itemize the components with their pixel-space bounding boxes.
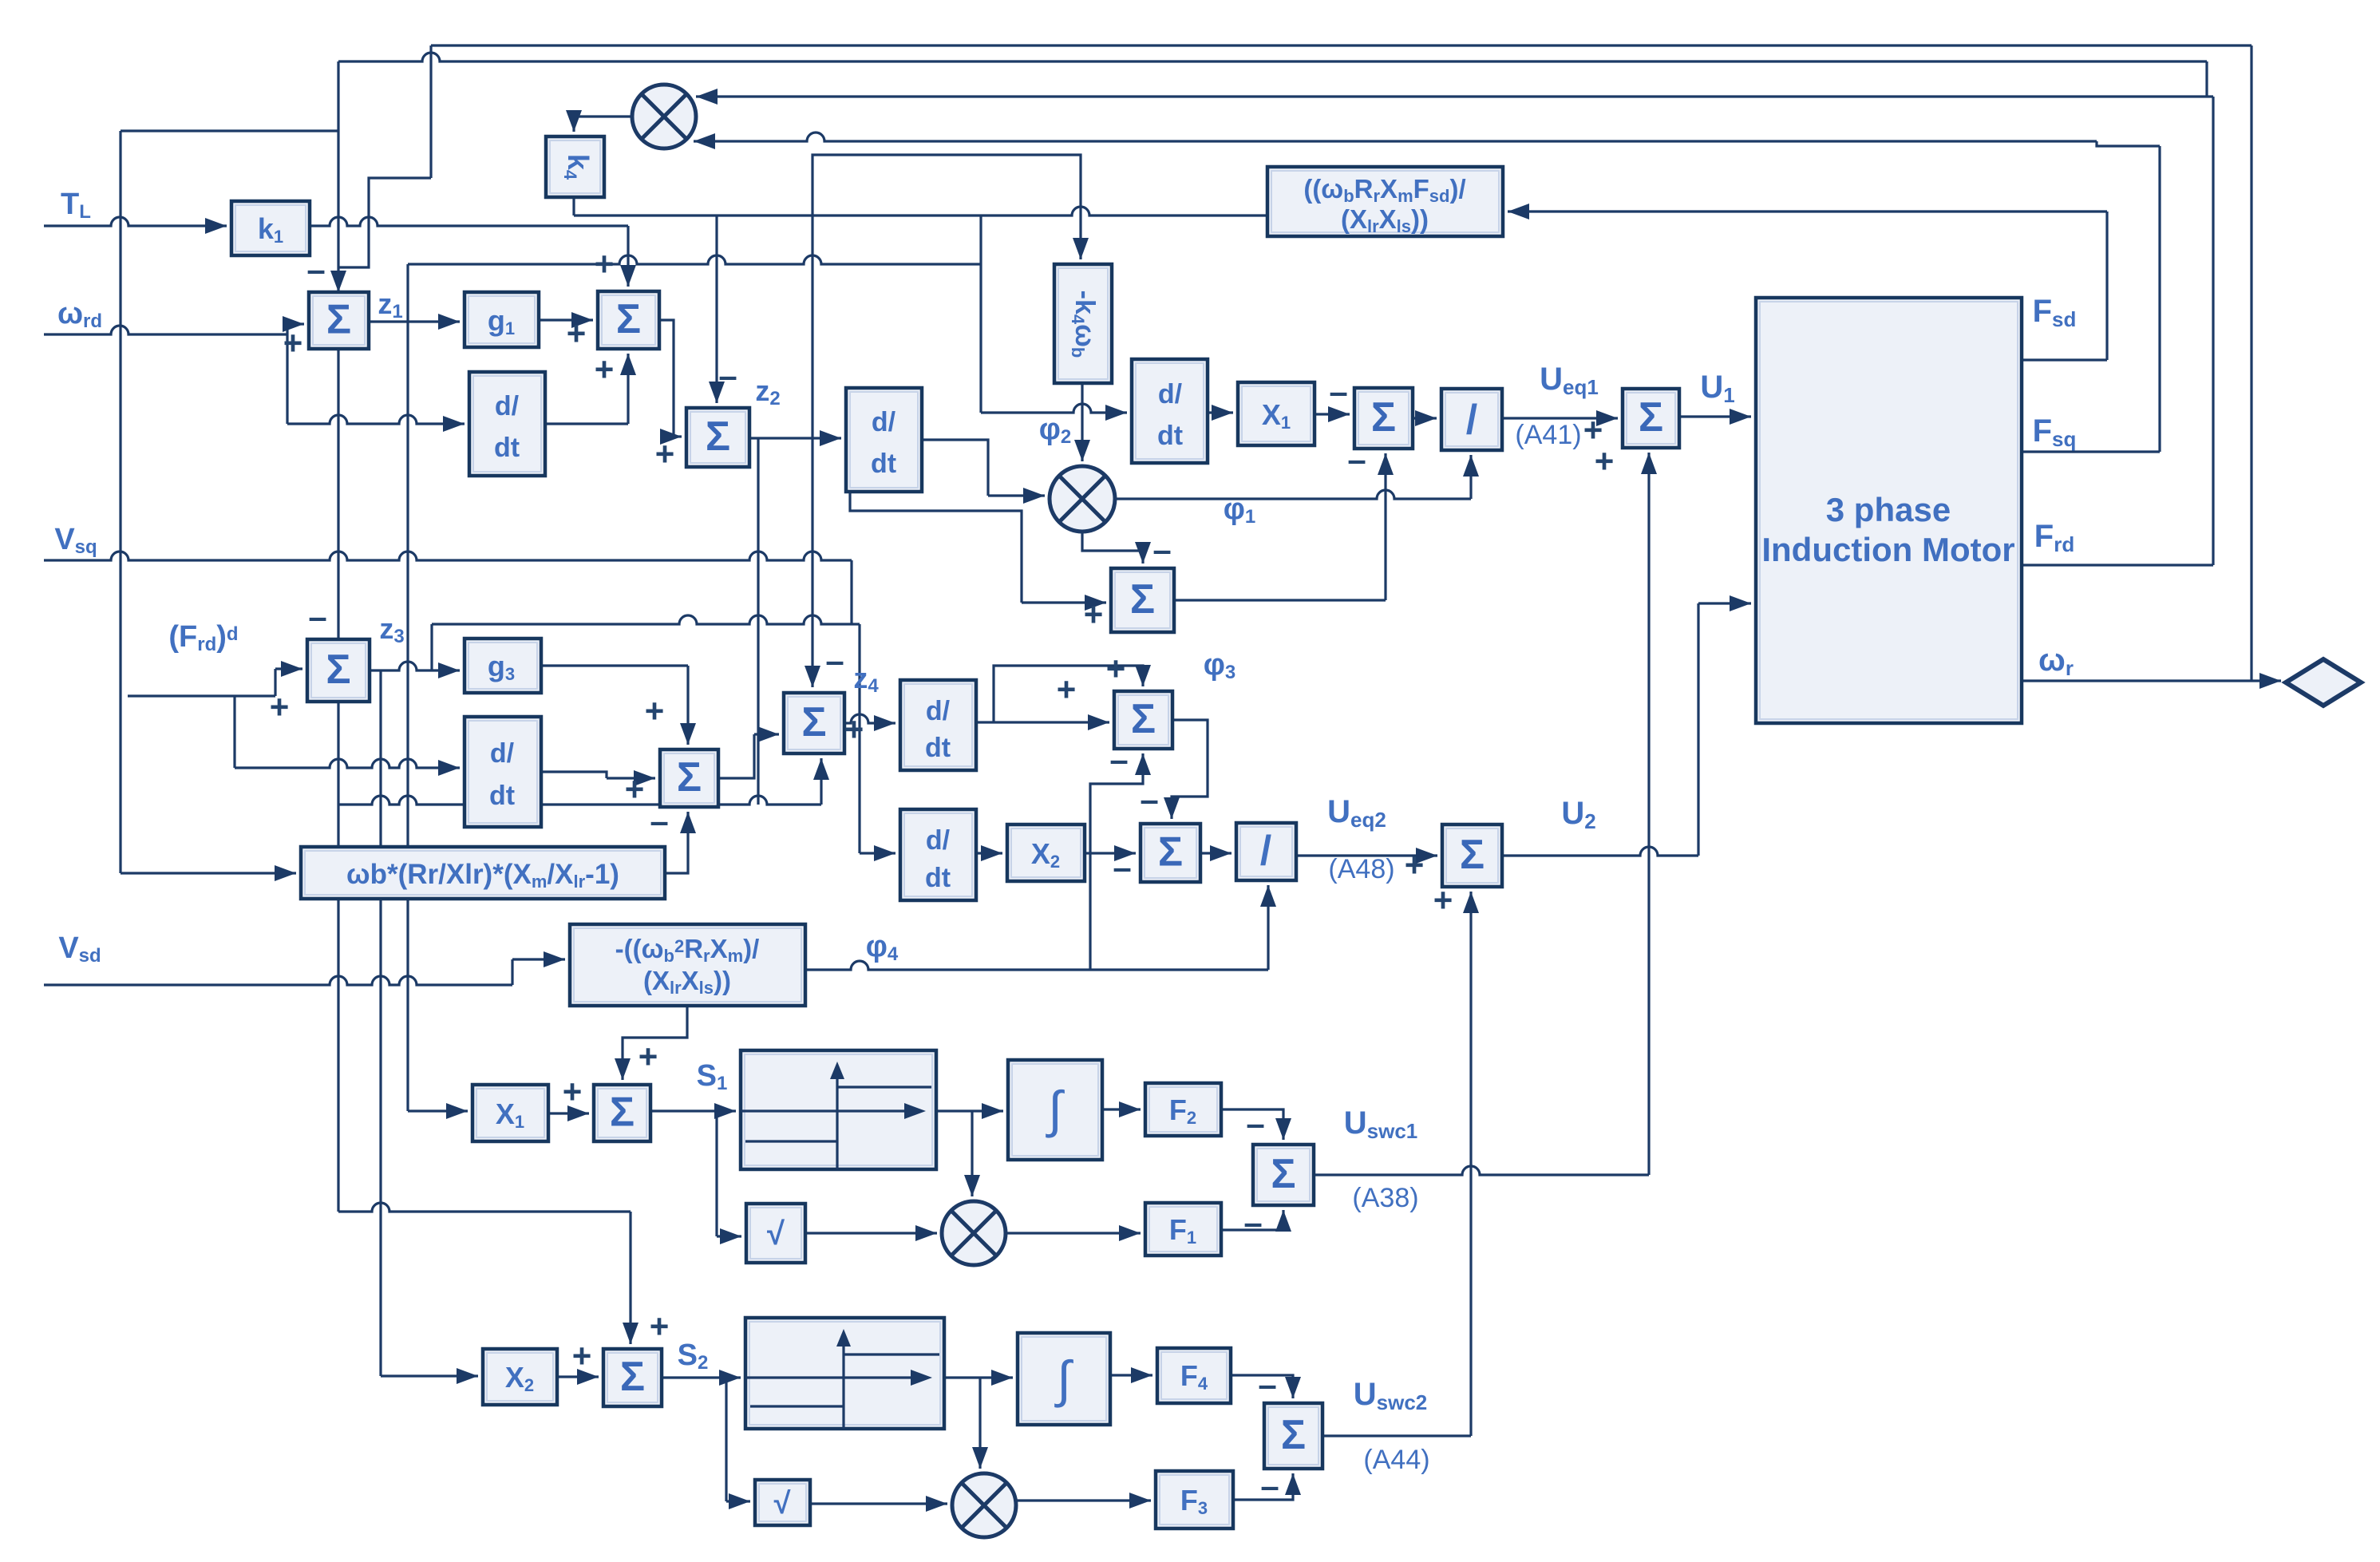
wire g1 output to sum S2 <box>539 318 593 321</box>
wire z2 branch down x=950 <box>757 438 759 805</box>
wire -((wb2RrXm)) block bottom to sum S13 top <box>623 1006 687 1080</box>
wire X2 lower output to sum S15 <box>557 1375 599 1378</box>
wire X1 lower output to sum S13 <box>548 1112 589 1114</box>
gain block -((wb2 Rr Xm)/(Xlr Xls)) <box>570 924 805 1006</box>
sqrt block 1 <box>746 1204 805 1263</box>
gain k4 <box>546 136 604 197</box>
svg-text:–: – <box>1260 1467 1279 1505</box>
wire omega-r feedback rail top (y=57) <box>431 44 2252 46</box>
sum S2 <box>598 291 659 349</box>
gain -k4wb <box>1054 264 1112 383</box>
svg-text:–: – <box>1152 531 1171 568</box>
wire relay2 output to integrator2 <box>944 1376 1013 1378</box>
wire ddt1 output to sum S2 bottom <box>545 422 628 425</box>
gain X1 lower <box>472 1085 548 1141</box>
svg-text:+: + <box>650 1307 670 1345</box>
gain X2 lower <box>483 1349 557 1405</box>
svg-text:+: + <box>844 710 864 748</box>
wire -k4wb output (phi2) down to multiplier M2 <box>1081 383 1083 461</box>
sum S12 (U2) <box>1442 824 1502 887</box>
svg-text:Induction Motor: Induction Motor <box>1761 531 2014 568</box>
wire S2 branch down to sqrt2 <box>725 1378 727 1501</box>
svg-text:Σ: Σ <box>1281 1412 1306 1458</box>
svg-text:–: – <box>1113 848 1131 886</box>
wire S1 branch down to sqrt block <box>715 1111 718 1236</box>
svg-text:Σ: Σ <box>1639 394 1663 441</box>
svg-text:–: – <box>308 598 326 635</box>
svg-text:∫: ∫ <box>1045 1081 1065 1138</box>
wire g3 output to sum S8 top <box>541 664 688 666</box>
svg-text:Σ: Σ <box>677 754 702 801</box>
wire phi1 output to sum S4 bottom minus <box>1174 599 1386 601</box>
wire ddt4 output to gain X1 <box>1208 411 1233 413</box>
sum S4 <box>1354 388 1413 449</box>
gain F4 <box>1157 1348 1231 1403</box>
derivative ddt4 <box>1132 359 1208 463</box>
wire feedback line2 (y=77) to sum S1 minus <box>338 53 2207 61</box>
gain g1 <box>465 292 539 347</box>
wire sqrt1 to multiplier M3 <box>805 1232 937 1234</box>
wire phi4 line from -((wb2RrXm)) block to divider D2 bottom <box>805 961 1268 970</box>
divider D2 <box>1236 823 1296 880</box>
svg-text:–: – <box>1246 1105 1264 1142</box>
wire motor output Frd stub <box>2022 564 2213 566</box>
wire gain k4 output rail (y=270) <box>572 197 575 216</box>
wire multiplier M1 output to gain k4 <box>574 117 632 132</box>
gain block wb*(Rr/Xlr)*(Xm/Xlr-1) <box>301 847 665 899</box>
svg-text:+: + <box>563 1073 583 1110</box>
svg-text:+: + <box>1405 846 1425 884</box>
svg-text:Σ: Σ <box>706 413 730 460</box>
svg-text:+: + <box>572 1337 592 1374</box>
svg-text:Σ: Σ <box>1371 394 1396 441</box>
svg-text:(A48): (A48) <box>1328 854 1394 884</box>
wire M2 bottom output to sum S6 top minus <box>1082 532 1143 564</box>
wire sqrt2 to multiplier M4 <box>810 1502 947 1505</box>
svg-text:dt: dt <box>925 733 951 763</box>
wire k4 rail drop to sum S3 top minus <box>715 216 718 403</box>
wire input (Frd)d (y=872) into sum S7 <box>128 694 275 697</box>
wire wb block output up into sum S8 bottom minus <box>665 812 688 873</box>
svg-text:+: + <box>270 688 290 726</box>
wire z3 output to gain g3 <box>370 662 460 670</box>
wire segment y=164 joining line2 vertical <box>121 129 338 132</box>
derivative ddt1 <box>469 372 545 476</box>
svg-text:–: – <box>718 357 737 394</box>
output diamond (omega-r scope) <box>2286 659 2361 706</box>
gain g3 <box>465 639 541 693</box>
wire ddt4 feed drop x=1229 <box>979 216 982 413</box>
integrator 2 <box>1018 1333 1110 1425</box>
sum S14 (Uswc1) <box>1253 1145 1314 1205</box>
svg-text:Σ: Σ <box>326 647 350 693</box>
svg-text:+: + <box>283 324 303 362</box>
svg-text:–: – <box>306 251 325 288</box>
wire relay1 output branch down to multiplier M3 top <box>971 1111 973 1196</box>
svg-text:+: + <box>1084 595 1104 633</box>
wire ddt3 output to multiplier M2 left <box>922 440 988 496</box>
wire jog from line1 into x=462 drop <box>338 178 431 267</box>
svg-text:–: – <box>650 802 668 840</box>
gain F2 <box>1145 1083 1221 1136</box>
svg-text:+: + <box>655 435 675 473</box>
gain F1 <box>1145 1203 1221 1256</box>
derivative ddt5 <box>465 717 541 827</box>
wire gain k1 output to sum S2 top <box>310 217 628 226</box>
wire sum S4 output to divider D1 <box>1413 417 1437 419</box>
svg-text:Σ: Σ <box>1158 829 1183 876</box>
wire F2 to sum S14 top minus <box>1221 1109 1283 1140</box>
wire Ueq2 divider D2 to sum S12 <box>1296 854 1437 856</box>
relay block 1 (sign function) <box>741 1050 936 1169</box>
wire (Frd)d branch to derivative ddt5 <box>233 696 235 768</box>
wire Uswc2 output line to riser x=1843 <box>1322 1434 1471 1437</box>
sum S15 (S2) <box>603 1349 662 1406</box>
svg-text:–: – <box>1258 1366 1276 1403</box>
svg-text:(XlrXls)): (XlrXls)) <box>643 966 731 998</box>
wire Uswc1 output line to riser x=2066 <box>1314 1166 1649 1175</box>
sum S3 (z2) <box>686 408 749 467</box>
sum S8 <box>660 749 718 807</box>
wire input TL (y=283) <box>44 217 227 226</box>
wire phi4 branch up into sum S10 bottom minus <box>1090 753 1143 970</box>
wire y=1008 line into sum S9 bottom <box>338 796 821 805</box>
svg-text:Σ: Σ <box>801 699 826 745</box>
svg-text:d/: d/ <box>1158 379 1183 409</box>
svg-text:d/: d/ <box>926 825 951 856</box>
wire U2 sum S12 right and up to motor lower input <box>1502 847 1698 856</box>
wire motor output omega-r to diamond <box>2022 679 2281 682</box>
wire Uswc1 riser into sum S5 bottom <box>1647 453 1650 1175</box>
wire ddt3 bottom stub to sum S6 left <box>850 492 1022 603</box>
svg-text:–: – <box>1109 741 1128 778</box>
sum S9 (z4) <box>784 693 844 753</box>
sum S10 (phi3) <box>1114 691 1172 749</box>
svg-text:+: + <box>1057 670 1077 708</box>
wire motor output Fsq stub <box>2022 450 2160 453</box>
wire Fsq feedback to multiplier M1 lower input (y=177) <box>694 132 2097 141</box>
wire sum S2 output to sum S3 left <box>659 320 674 437</box>
derivative ddt6 <box>900 680 976 770</box>
wire S1 line sum S13 to relay block <box>650 1109 736 1112</box>
svg-text:Σ: Σ <box>326 297 351 343</box>
svg-text:–: – <box>1329 373 1347 410</box>
wire sum S1 bottom drop to S15 feed line (x=424) <box>337 349 339 1212</box>
sum S7 (z3) <box>307 639 370 702</box>
svg-text:Σ: Σ <box>610 1089 635 1136</box>
sqrt block 2 <box>755 1480 810 1525</box>
multiplier M2 <box>1050 466 1115 532</box>
gain X2 <box>1007 824 1085 881</box>
wire F4 to sum S16 top minus <box>1231 1375 1293 1398</box>
svg-text:(A44): (A44) <box>1363 1445 1429 1475</box>
svg-text:+: + <box>567 314 587 352</box>
svg-text:Σ: Σ <box>1131 696 1156 742</box>
svg-text:dt: dt <box>494 433 520 463</box>
wire M3 output to F1 <box>1006 1232 1141 1234</box>
svg-text:d/: d/ <box>490 738 515 769</box>
svg-text:√: √ <box>767 1216 785 1252</box>
wire Frd feedback to multiplier M1 upper input (y=121) <box>696 95 2213 97</box>
svg-text:d/: d/ <box>926 696 951 726</box>
derivative ddt7 <box>900 809 976 900</box>
wire Uswc2 riser into sum S12 bottom <box>1469 892 1472 1436</box>
wire omega-rd branch to derivative ddt1 <box>286 334 288 424</box>
svg-text:/: / <box>1260 828 1271 874</box>
wire relay2 branch down to multiplier M4 top <box>978 1378 981 1469</box>
sum S13 (S1) <box>594 1085 650 1141</box>
svg-text:dt: dt <box>1157 421 1183 451</box>
svg-text:–: – <box>1347 441 1366 478</box>
wire M2 output right to divider D1 bottom <box>1115 490 1471 499</box>
svg-text:Σ: Σ <box>1130 576 1155 623</box>
derivative ddt3 <box>846 388 922 492</box>
wire X1 output to sum S4 <box>1315 413 1350 415</box>
svg-text:+: + <box>595 245 615 283</box>
wire ddt7 output to gain X2 <box>976 852 1002 854</box>
svg-text:d/: d/ <box>495 391 520 421</box>
wire F1 to sum S14 bottom minus <box>1221 1210 1283 1230</box>
wire Fsd feedback into (wb Rr Xm Fsd) block input (y=265) <box>1508 210 2107 212</box>
wire node 1018 drop to sum S9 top minus <box>811 216 813 687</box>
wire z2 output to derivative ddt3 <box>749 437 841 439</box>
wire M4 output to F3 <box>1016 1499 1151 1501</box>
svg-text:(A41): (A41) <box>1515 420 1581 450</box>
wire into X1 lower <box>408 1109 468 1112</box>
wire z1 output to gain g1 <box>369 320 460 322</box>
wire z3 down-branch x=477 to gain X2 lower <box>379 670 382 1376</box>
wire U1 sum S5 to motor <box>1679 415 1751 417</box>
svg-text:3 phase: 3 phase <box>1826 491 1951 528</box>
multiplier M4 <box>952 1473 1016 1537</box>
wire relay1 output to integrator <box>936 1109 1003 1112</box>
gain F3 <box>1156 1471 1233 1528</box>
gain X1 <box>1238 382 1315 445</box>
svg-text:Σ: Σ <box>616 296 641 342</box>
svg-text:dt: dt <box>925 863 951 893</box>
wire trunk x=150 from y=164 to wb block input <box>119 131 121 873</box>
wire branch up from node 1018 to -k4wb gain <box>812 155 1081 259</box>
svg-text:–: – <box>825 642 844 679</box>
wire input Vsq (y=702) <box>44 552 852 560</box>
wire Ueq1 divider D1 to sum S5 <box>1502 417 1618 419</box>
wire S2 line sum S15 to relay2 <box>662 1376 741 1378</box>
sum S11 <box>1141 824 1200 882</box>
sum S1 (z1) <box>309 292 369 349</box>
wire input Vsd (y=1234) into -((wb2RrXm)) block <box>44 976 512 985</box>
wire motor output Fsd stub <box>2022 358 2107 361</box>
wire sum S8 output to sum S9 left <box>718 734 754 778</box>
sum S6 (phi1) <box>1111 568 1174 632</box>
svg-text:dt: dt <box>871 449 896 479</box>
wire z3 up branch over to ddt7 (y=782) <box>430 624 433 670</box>
gain k1 <box>231 201 310 255</box>
sum S5 (U1) <box>1623 389 1679 448</box>
wire F3 to sum S16 bottom minus <box>1233 1473 1293 1500</box>
svg-text:∫: ∫ <box>1054 1350 1073 1408</box>
block 3 phase induction motor <box>1756 298 2022 723</box>
svg-text:Σ: Σ <box>1271 1151 1295 1197</box>
wire sum S11 output to divider D2 <box>1200 852 1232 854</box>
sum S16 (Uswc2) <box>1264 1403 1322 1469</box>
wire ddt5 output to sum S8 <box>541 772 607 778</box>
svg-text:/: / <box>1466 397 1477 443</box>
svg-text:Σ: Σ <box>1460 832 1485 878</box>
svg-text:+: + <box>1106 650 1126 687</box>
svg-text:+: + <box>1595 442 1615 480</box>
svg-text:+: + <box>595 350 615 388</box>
wire S10 output (phi3) s-bend into sum S11 top <box>1172 720 1208 819</box>
svg-text:+: + <box>638 1038 658 1075</box>
svg-text:d/: d/ <box>872 407 896 437</box>
wire ddt6 branch up to sum S10 top <box>994 666 1143 722</box>
svg-text:dt: dt <box>489 781 515 811</box>
wire input omega-rd (y=419) into sum S1 <box>44 326 287 334</box>
wire ddt6 output to sum S10 <box>976 721 1109 723</box>
svg-text:–: – <box>1243 1204 1262 1241</box>
wire z4 output to derivative ddt6 <box>844 714 895 723</box>
multiplier M1 <box>632 85 696 148</box>
svg-text:–: – <box>1140 781 1158 818</box>
wire z1 up-branch to derivative ddt4 (via y=331) <box>406 264 409 322</box>
wire integrator1 to F2 <box>1102 1108 1141 1110</box>
svg-text:+: + <box>645 692 665 730</box>
divider D1 <box>1441 389 1502 450</box>
svg-text:(XlrXls)): (XlrXls)) <box>1341 204 1429 236</box>
multiplier M3 <box>942 1201 1006 1265</box>
integrator 1 <box>1008 1060 1102 1160</box>
svg-text:(A38): (A38) <box>1352 1183 1418 1213</box>
svg-text:+: + <box>1433 881 1453 919</box>
svg-text:+: + <box>625 770 645 808</box>
wire integrator2 to F4 <box>1110 1374 1152 1376</box>
gain block (wbRrXmFsd)/(XlrXls) <box>1267 167 1503 236</box>
wire X2 output to sum S11 <box>1085 852 1136 854</box>
relay block 2 (sign function) <box>745 1318 944 1429</box>
svg-text:Σ: Σ <box>620 1354 645 1400</box>
svg-text:√: √ <box>774 1487 791 1520</box>
wire z1 down-branch to gain X1 lower <box>406 322 409 1111</box>
